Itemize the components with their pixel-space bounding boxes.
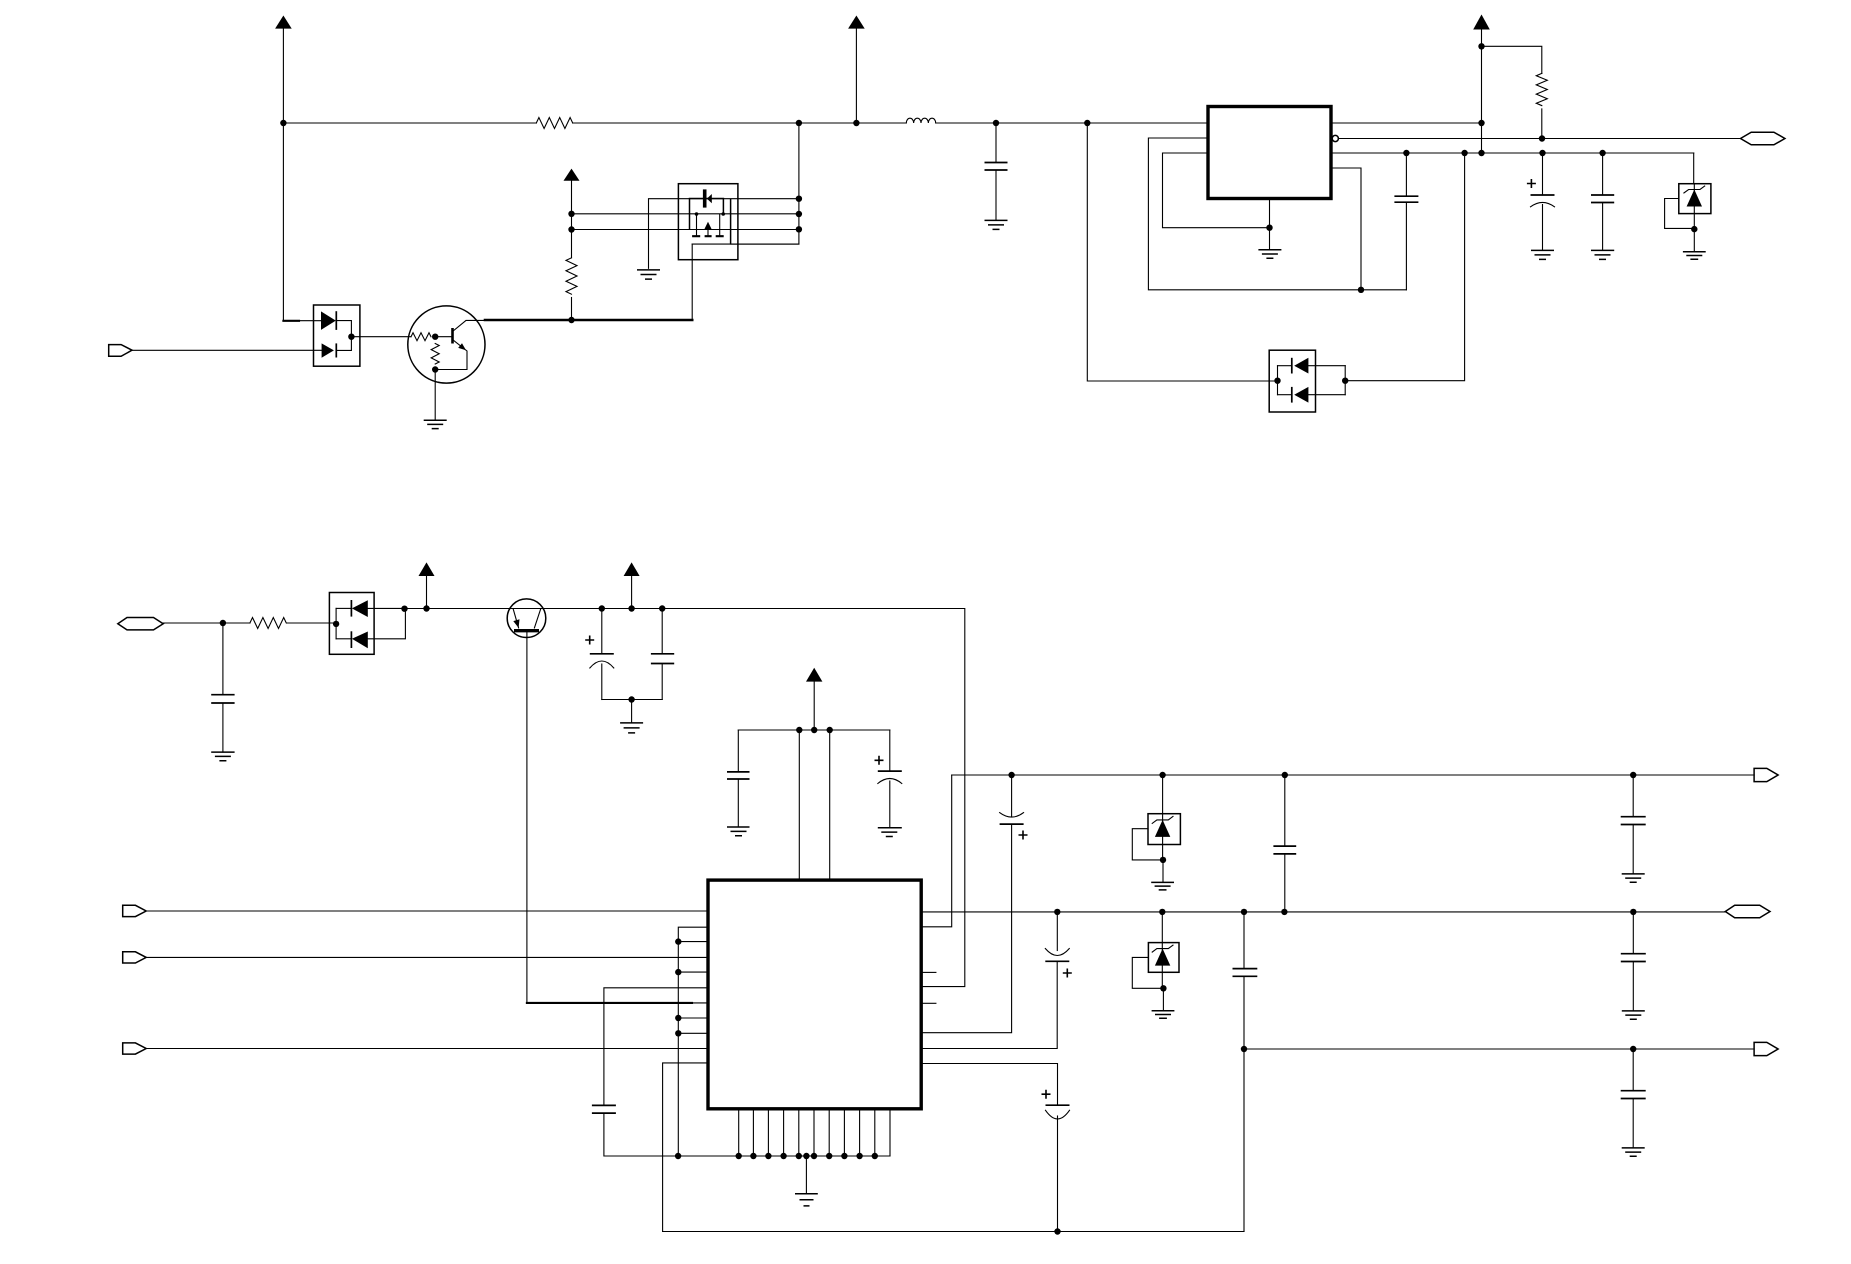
capacitor C8 arc: [590, 661, 614, 668]
capacitor C-A stem top: [1056, 912, 1058, 951]
wire U3 bottom pins: [739, 1109, 890, 1156]
wire VCC4 riser: [1481, 30, 1483, 153]
node J-CO (1284.8,775): [1282, 772, 1288, 778]
capacitor C13 plate: [1000, 823, 1024, 825]
zener Z3 bar: [1152, 945, 1173, 952]
node J-A (283,123): [280, 120, 286, 126]
wire IN5 to U3: [146, 1048, 708, 1050]
capacitor C6 stem bottom: [1542, 205, 1544, 251]
node J-J (571.5,229.5): [568, 226, 574, 232]
wire U1 pin2 loop: [1148, 138, 1406, 290]
wire U1 out1: [1331, 122, 1482, 124]
diode D6 triangle: [352, 632, 368, 649]
node J-R (1464.6,153): [1461, 150, 1467, 156]
node J-O (1269.5,227.7): [1266, 225, 1272, 231]
capacitor C16 plates: [1233, 969, 1258, 977]
wire U3 pin6 from cap riser: [604, 988, 708, 1106]
transistor U2 inner outline: [690, 199, 731, 245]
capacitor C15 plates: [1621, 817, 1646, 825]
ground GND-U2: [637, 270, 660, 279]
resistor R3: [431, 344, 439, 365]
zener Z2 triangle: [1155, 820, 1170, 837]
wire Q2 base down: [526, 632, 528, 1003]
wire Z1 top corner: [1693, 153, 1695, 184]
wire IN2 to R5: [163, 622, 250, 624]
wire VCC4 branch to R4: [1482, 46, 1542, 73]
wire collector thick: [485, 319, 692, 322]
connector IN2 flag hexagon: [118, 618, 163, 630]
zener Z1 bar: [1684, 186, 1705, 193]
node J-I (571.5,213.8): [568, 211, 574, 217]
diode box D3D4: [1269, 350, 1315, 412]
arrow Q1 emitter: [458, 343, 466, 350]
diode box D5D6: [329, 593, 374, 655]
capacitor C5 plates: [1394, 196, 1418, 202]
wire Z1 anode loop: [1665, 199, 1691, 229]
wire main rail left: [283, 122, 906, 124]
diode D2 cathode bar: [335, 343, 337, 357]
node J-CR (1633.3,911.9): [1630, 909, 1636, 915]
wire rail2: [921, 911, 1725, 913]
node J-V (1481.5,46.3): [1478, 43, 1484, 49]
capacitor C11 plus: [875, 756, 884, 765]
node J-BG (662.2,608.5): [659, 605, 665, 611]
zener Z2 box: [1148, 814, 1180, 845]
diode D1 triangle: [321, 311, 336, 330]
wire lower diode feed riser: [1087, 123, 1277, 381]
capacitor C6 stem top: [1542, 153, 1544, 195]
capacitor C3 plates: [211, 695, 234, 703]
node J-L (351.4,336.7): [348, 334, 354, 340]
node J-BA (222.9,623): [220, 620, 226, 626]
wire D5D6 anode riser: [335, 608, 337, 638]
IC U1 box: [1208, 107, 1331, 199]
diode D6 bar: [350, 631, 352, 648]
connector IN1 flag: [109, 345, 132, 357]
node J-K (571.5,320): [568, 317, 574, 323]
capacitor C11 arc: [878, 779, 902, 784]
node J-CQ (1633.2,775): [1630, 772, 1636, 778]
node J-CB (678.3,972.1): [675, 969, 681, 975]
wire U1 pin4 feedback riser: [1331, 168, 1361, 290]
capacitor C-B stem bottom: [1057, 1116, 1059, 1232]
ground GND-C3: [211, 752, 234, 761]
wire VCC6 riser: [631, 576, 633, 609]
node J-CL (1163.4,988.3): [1160, 985, 1166, 991]
wire U3 pinR3 NC stub: [921, 971, 936, 973]
wire U3 pinR6 corner: [921, 824, 1011, 1033]
capacitor C7 plates: [1591, 195, 1614, 203]
wire VCC7 riser: [813, 682, 815, 730]
wire U1 pin3 loop: [1163, 153, 1270, 228]
capacitor C8 plus: [585, 636, 594, 645]
wire rail3: [1244, 1048, 1754, 1050]
wire U3 pin7 thick: [527, 1002, 692, 1004]
connector OUT4 flag: [1754, 1042, 1778, 1055]
ground GND-C8C9: [620, 723, 643, 733]
wire C12 bottom corner: [604, 1113, 890, 1156]
wire U3 pinR5 NC stub: [921, 1002, 936, 1004]
wire Z2 through: [1162, 775, 1164, 860]
node J-BH (631.6,699.5): [628, 696, 634, 702]
connector IN4 flag: [123, 952, 147, 963]
wire U3 pin5: [678, 971, 708, 973]
circle U1 inverter bubble: [1332, 135, 1338, 141]
wire Q1 collector diagonal: [453, 320, 486, 331]
wire Z1 gnd stem: [1693, 229, 1695, 252]
wire U3 pin7 thin: [692, 1002, 708, 1004]
capacitor C11 stem top: [889, 730, 891, 771]
wire U3 pinR7 corner capA: [921, 961, 1057, 1048]
node J-AA (1345.2,380.7): [1342, 378, 1348, 384]
wire mid column lower: [1243, 976, 1246, 1231]
mosfet U2 channel bars: [692, 235, 724, 237]
ground GND-C18: [1622, 1148, 1645, 1156]
node J-CN (1244,1049): [1241, 1046, 1247, 1052]
capacitor C13 stem top: [1011, 775, 1013, 816]
node J-T (1542.5,153): [1539, 150, 1545, 156]
arrow Q2 emitter: [513, 619, 519, 628]
wire D6 anode: [336, 638, 351, 640]
wire U3 pin2 corner: [678, 927, 708, 1156]
ground GND-Z3: [1152, 1011, 1175, 1019]
diode D4 bar: [1291, 387, 1293, 403]
capacitor C13 arc: [1000, 813, 1024, 818]
power symbol VCC5 arrow: [419, 562, 435, 576]
node J-BB (336.1,623.9): [333, 621, 339, 627]
capacitor C-A arc: [1045, 949, 1069, 956]
capacitor C11 stem bottom: [889, 781, 891, 828]
wire D4 anode: [1278, 394, 1292, 396]
wire rail1: [952, 774, 1754, 776]
wire Z3 anode loop: [1132, 957, 1160, 988]
capacitor C18 plates: [1621, 1091, 1646, 1099]
capacitor C9 plates: [651, 654, 674, 664]
wire D5 cathode out: [368, 607, 405, 609]
mosfet U2 substrate arrow: [704, 222, 711, 229]
capacitor C11 plate: [878, 770, 902, 772]
transistor Q2 base bar: [514, 629, 539, 632]
capacitor C8 stem top: [601, 609, 603, 654]
node J-BI (799.3,730): [796, 727, 802, 733]
node J-CG (1011.6,775): [1008, 772, 1014, 778]
wire Z3 through: [1161, 912, 1163, 988]
wire Q1 base to bar: [435, 336, 451, 338]
node J-E (1087,123): [1084, 120, 1090, 126]
transistor Q2 circle: [507, 599, 546, 638]
capacitor C12 plates: [592, 1105, 616, 1113]
connector OUT3 flag: [1754, 768, 1778, 781]
wire Q2 emitter diagonal: [513, 609, 519, 628]
capacitor C7 stems: [1602, 153, 1604, 250]
power symbol VCC1 arrow: [275, 16, 292, 29]
node J-U (1602.6,153): [1599, 150, 1605, 156]
capacitor C6 arc: [1531, 202, 1555, 206]
wire U1 out2 to flag: [1338, 138, 1740, 140]
node J-CF (1057.5,1231.5): [1054, 1228, 1060, 1234]
node J-CC (678.3,1018): [675, 1015, 681, 1021]
capacitor C14 plates: [1273, 846, 1296, 854]
capacitor C15 stems: [1632, 775, 1634, 874]
resistor R4: [1536, 73, 1547, 105]
wire R5 to diode box: [287, 622, 335, 624]
wire D3D4 cathode riser: [1344, 366, 1346, 395]
zener Z3 triangle: [1155, 949, 1170, 966]
power symbol VCC2 arrow: [848, 16, 865, 29]
wire U2 gate pin down: [691, 244, 693, 320]
wire VCC1 elbow thick: [283, 320, 299, 322]
wire gate level1: [572, 213, 799, 215]
zener Z3 box: [1148, 943, 1179, 973]
capacitor C17 plates: [1621, 954, 1646, 962]
node J-CP (1284.4,911.9): [1281, 909, 1287, 915]
node J-Q (1406.4,153): [1403, 150, 1409, 156]
capacitor C14 stems: [1284, 775, 1286, 912]
capacitor C6 plus: [1527, 179, 1536, 188]
wire U2 gate bar: [692, 243, 799, 245]
wire U3 pin3: [678, 941, 708, 943]
wire U3 pin9: [678, 1032, 708, 1034]
wire R4 bottom: [1541, 109, 1543, 139]
resistor R5: [250, 618, 286, 629]
wire D6 cathode loop: [368, 609, 406, 639]
node J-CI (1162.6,775): [1159, 772, 1165, 778]
transistor Q1 circle: [408, 306, 485, 383]
capacitor C-B arc: [1046, 1110, 1070, 1119]
node J-CJ (1163,859.9): [1160, 857, 1166, 863]
wire gate level2: [572, 229, 799, 231]
ground GND-Q1: [424, 420, 447, 428]
node J-C (856,123): [853, 120, 859, 126]
node J-BC (404.5,608.7): [401, 606, 407, 612]
wire Q1 emitter ground stem: [434, 370, 436, 421]
wire base feed: [351, 336, 411, 338]
mosfet U2 source/drain stubs: [697, 214, 720, 236]
wire C8 C9 gnd join: [602, 699, 662, 701]
wire Z2 anode loop: [1132, 829, 1159, 860]
node J-CM (1244,911.9): [1241, 909, 1247, 915]
node J-Z (1277.5,380.7): [1274, 378, 1280, 384]
capacitor C10 plates: [727, 772, 750, 779]
wire vcc bus 730: [738, 729, 890, 731]
capacitor C13 plus: [1019, 831, 1028, 840]
wire D3D4 to sense column: [1345, 153, 1464, 381]
wire U3 pinR8 corner capB: [921, 1064, 1057, 1106]
wire U1 out3 sense: [1331, 152, 1694, 154]
diode D5 triangle: [352, 600, 368, 617]
ground GND-Z1: [1683, 252, 1706, 259]
node U2 stub dots: [695, 212, 699, 216]
connector OUT2 flag hexagon: [1725, 905, 1770, 918]
capacitor C8 plate: [590, 653, 614, 655]
wire Z3 gnd stem: [1162, 988, 1164, 1011]
wire Q1 emitter diagonal: [435, 340, 467, 370]
capacitor C18 stems: [1632, 1049, 1634, 1148]
node J-B (799,123): [796, 120, 802, 126]
node J-CE (678.1,1156): [675, 1153, 681, 1159]
node J-M (435.2,336.7): [432, 334, 438, 340]
wire U3 pinR2 to railA riser: [921, 775, 952, 927]
power symbol VCC7 arrow: [806, 668, 822, 682]
node J-BE (601.8,608.5): [599, 605, 605, 611]
capacitor C-A plus: [1063, 969, 1072, 978]
wire D4 cathode: [1308, 394, 1345, 396]
ground GND-C17: [1622, 1011, 1645, 1019]
capacitor C10 stems: [737, 730, 739, 827]
connector IN3 flag: [123, 905, 147, 916]
wire gnd stem C8C9: [631, 700, 633, 723]
node J-S (1481.5,153): [1478, 150, 1484, 156]
transistor U2 outer box: [678, 184, 738, 260]
wire main rail right of L1: [936, 122, 1208, 124]
node J-Y (1694.3,229.1): [1691, 226, 1697, 232]
wire IN3 to U3: [146, 910, 708, 912]
capacitor C6 plate: [1531, 194, 1555, 196]
diode D4 triangle: [1294, 387, 1308, 403]
wire D5 anode: [336, 607, 351, 609]
wire gnd stem U3: [805, 1156, 807, 1194]
node J-BF (631.6,608.5): [628, 605, 634, 611]
wire Q2 collector diagonal: [534, 609, 540, 628]
diode D2 triangle: [322, 343, 334, 357]
node J-X (1542,138.5): [1539, 135, 1545, 141]
node J-BD (426.5,608.5): [423, 605, 429, 611]
wire IN4 to U3: [146, 956, 708, 958]
zener Z2 bar: [1152, 816, 1173, 823]
node J-BK (829.7,730): [827, 727, 833, 733]
inductor L1: [906, 118, 935, 123]
node J-W (1481.5,123): [1478, 120, 1484, 126]
wire VCC3 riser to R2: [571, 181, 573, 258]
diode D3 triangle: [1294, 358, 1308, 374]
node J-N (435.2,369.5): [432, 366, 438, 372]
node J-CK (1162.3,911.9): [1159, 909, 1165, 915]
transistor Q1 base bar: [451, 328, 454, 344]
power symbol VCC6 arrow: [624, 562, 640, 576]
node J-D (996,123): [993, 120, 999, 126]
node J-CH (1057.3,911.9): [1054, 909, 1060, 915]
diode box D1D2: [314, 305, 360, 366]
wire Z1 through: [1693, 184, 1695, 229]
wire IN1 to D2: [132, 349, 322, 351]
capacitor C17 stems: [1632, 912, 1634, 1011]
node J-BJ (814.2,730): [811, 727, 817, 733]
diode D1 cathode bar: [335, 311, 337, 330]
connector OUT1 flag hexagon: [1741, 132, 1785, 145]
power symbol VCC4 arrow: [1473, 15, 1490, 30]
wire VCC5 riser: [426, 576, 428, 609]
wire U1 gnd pin: [1269, 199, 1271, 250]
resistor R1: [536, 118, 572, 129]
ground GND-C6: [1531, 250, 1554, 259]
node J-CD (678.3,1033.3): [675, 1030, 681, 1036]
connector IN5 flag: [123, 1043, 147, 1054]
wire Z2 gnd stem: [1162, 860, 1164, 883]
wire gate-drive column x799: [731, 123, 799, 244]
power symbol VCC3 arrow: [564, 169, 580, 181]
zener Z1 box: [1679, 184, 1711, 214]
wire R2 bottom: [571, 298, 573, 321]
diode D3 bar: [1291, 358, 1293, 374]
capacitor C9 stems: [661, 609, 663, 700]
diode D5 bar: [350, 600, 352, 617]
wire D3 cathode: [1308, 365, 1345, 367]
wire rail 608: [405, 609, 965, 987]
node J-CS (1633.2,1049): [1630, 1046, 1636, 1052]
wire U3 pin11 corner: [663, 1063, 708, 1232]
ground GND-C7: [1591, 250, 1614, 259]
ground GND-Z2: [1151, 882, 1174, 890]
ground GND-U3: [795, 1194, 818, 1206]
zener Z1 triangle: [1687, 190, 1702, 207]
node J-P (1361,289.8): [1358, 287, 1364, 293]
capacitor C3 stems: [222, 623, 224, 752]
capacitor C2 plates: [985, 163, 1008, 171]
node J-H (799,229.3): [796, 226, 802, 232]
wire into D1 anode: [299, 320, 321, 322]
wire VCC2 riser: [855, 29, 857, 123]
capacitor C-A plate: [1045, 960, 1069, 962]
wire VCC1 riser: [282, 29, 284, 321]
capacitor C2 stem: [995, 123, 997, 220]
capacitor C8 stem bottom: [601, 664, 603, 700]
node J-F (799,198.5): [796, 196, 802, 202]
node J-G (799,214): [796, 211, 802, 217]
ground GND-U1: [1258, 250, 1281, 258]
IC U3 box: [708, 880, 921, 1109]
node J-CA (678.3,941.6): [675, 938, 681, 944]
resistor R2: [566, 258, 577, 294]
ground GND-C2: [985, 220, 1008, 229]
diode U2 body-diode triangle: [707, 194, 712, 203]
wire D1 D2 cathode join: [336, 321, 351, 351]
wire U3 vdd risers: [799, 730, 829, 880]
wire U3 pin8: [678, 1017, 708, 1019]
wire mid column upper: [1243, 912, 1245, 969]
diode U2 body-diode bar: [703, 189, 707, 207]
wire D3 anode: [1278, 365, 1292, 367]
ground GND-C11: [878, 828, 902, 837]
wire ground riser with corner: [649, 199, 799, 269]
wire D3D4 anode riser: [1277, 366, 1279, 395]
resistor Q1 base zigzag: [411, 333, 431, 341]
capacitor C-B plate: [1046, 1104, 1070, 1106]
capacitor C-B plus: [1042, 1090, 1051, 1099]
wire bottom return: [663, 1231, 1244, 1233]
ground GND-C15: [1622, 874, 1645, 882]
ground GND-C10: [727, 827, 750, 836]
node bottom pin dots: [736, 1153, 742, 1159]
capacitor C5 stems: [1405, 153, 1407, 290]
